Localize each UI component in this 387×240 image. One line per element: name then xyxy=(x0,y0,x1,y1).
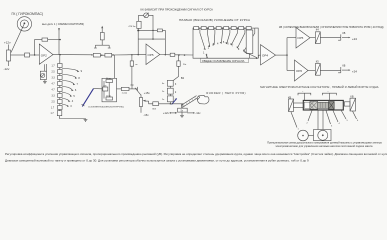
actuator coil right (hatched) xyxy=(329,102,335,110)
attenuator row nodes xyxy=(199,28,245,29)
svg-text:+24: +24 xyxy=(352,37,357,41)
B2 contact numbers xyxy=(175,83,177,101)
wire split vertical xyxy=(286,38,288,71)
ground ladder xyxy=(84,119,88,122)
node RC input xyxy=(103,88,104,89)
wire inner feedback tick xyxy=(152,30,154,39)
svg-text:электромагнитами для управлен: электромагнитами для управления шаговым … xyxy=(276,144,373,148)
svg-text:-15v: -15v xyxy=(143,113,149,117)
ladder tap wires to selector contacts xyxy=(62,69,78,106)
node +12v xyxy=(170,112,171,113)
svg-text:ОР5: ОР5 xyxy=(148,53,154,57)
rudder blade xyxy=(197,95,209,104)
svg-text:ОР6: ОР6 xyxy=(296,69,302,73)
resistor R11 tall at OP4 input xyxy=(246,30,253,54)
actuator white left chamber xyxy=(304,102,310,108)
svg-text:2к: 2к xyxy=(162,91,164,93)
counter rudder RC network box xyxy=(102,78,117,102)
wire rod junction to Ru box xyxy=(182,104,184,108)
resistor V03 xyxy=(153,102,159,106)
wire trim pot right to feedback xyxy=(149,15,154,30)
svg-text:вых.датч 1 ( СХЕМЫ КОНТРОЛЯ): вых.датч 1 ( СХЕМЫ КОНТРОЛЯ) xyxy=(42,22,84,26)
wire feedback to output node xyxy=(48,39,60,41)
arrow +24 lower xyxy=(349,69,351,71)
attenuator wiper tick xyxy=(206,54,208,58)
wire terminal to R6 xyxy=(101,28,103,32)
capacitor bridge line xyxy=(94,45,111,48)
B2 gain resistors xyxy=(167,80,173,104)
wire K4 to limit switch xyxy=(320,37,341,39)
wire OP5 to K4 xyxy=(310,37,315,39)
svg-text:+24: +24 xyxy=(352,70,357,74)
wire pot to -12v xyxy=(8,61,10,66)
wire to OP5 comparator xyxy=(287,37,296,39)
op-amp OP5 summing xyxy=(146,44,160,65)
resistor R3 feedback OP2 xyxy=(42,38,48,41)
node OP2 input xyxy=(34,54,35,55)
outer feedback line OP5 xyxy=(138,29,157,31)
potentiometer R1 (heading sensor) xyxy=(7,50,11,61)
label B2 feed node xyxy=(178,54,179,55)
attenuator position numbers xyxy=(203,41,247,54)
wire pot wiper to R2 xyxy=(11,54,25,56)
svg-text:1 ком: 1 ком xyxy=(122,92,128,94)
wire pot to V03 xyxy=(149,101,153,104)
svg-text:COUNTER RUDDER (КОНТРРУЛЬ): COUNTER RUDDER (КОНТРРУЛЬ) xyxy=(88,107,124,109)
wire R10 to OP4 bus xyxy=(175,55,259,58)
wire OP4 output to split xyxy=(276,54,288,56)
node under R8 xyxy=(137,30,139,31)
B2 feed wire xyxy=(173,55,178,81)
wire ladder feed xyxy=(59,55,61,64)
wire bus into OP4 xyxy=(258,55,260,58)
selector position numbers xyxy=(70,70,82,108)
mechanical rod to rudder xyxy=(181,96,198,108)
shaft link xyxy=(308,134,313,136)
node split xyxy=(286,54,287,55)
arrow +24 upper xyxy=(349,37,351,39)
op-amp OP4 xyxy=(261,45,276,65)
op-amp OP2 xyxy=(39,44,53,64)
wire wiper to RC box xyxy=(94,88,103,90)
node bus to R12 branch xyxy=(131,54,132,55)
rudder feedback pot B2 xyxy=(139,95,142,113)
Ru box power xyxy=(178,108,188,112)
svg-text:МАГНИТНЫЕ ЭЛЕКТРОМАГНИТНЫЕ КОН: МАГНИТНЫЕ ЭЛЕКТРОМАГНИТНЫЕ КОНТАКТОРЫ , … xyxy=(260,85,379,89)
svg-text:Диапазон смещенный волновой п: Диапазон смещенный волновой по такету и … xyxy=(5,159,309,163)
inner feedback line OP5 xyxy=(138,38,165,40)
node inner feedback xyxy=(152,38,153,39)
svg-text:ГК ( ГИРОКОМПАС): ГК ( ГИРОКОМПАС) xyxy=(12,12,44,16)
svg-text:RUDDER ( ПЕРО РУЛЯ): RUDDER ( ПЕРО РУЛЯ) xyxy=(206,91,246,95)
wire R6 to cap line xyxy=(101,40,103,45)
plunger right xyxy=(344,102,350,106)
attenuator contact arrows xyxy=(204,42,245,52)
wire R9 to output leg xyxy=(162,30,165,54)
capacitor C top in box xyxy=(106,80,113,83)
pump motor left xyxy=(298,130,309,141)
node P08 join xyxy=(138,54,139,55)
svg-text:4к: 4к xyxy=(162,83,164,85)
svg-text:КВ: КВ xyxy=(342,65,345,68)
gyrocompass G1 xyxy=(17,17,31,31)
wire OP6 to K5 xyxy=(308,70,315,72)
ground Ru box xyxy=(180,112,184,117)
mechanical link gyro to pot R1 xyxy=(11,24,24,53)
wire V03 to Ru box xyxy=(159,103,184,105)
attenuator resistor row xyxy=(194,27,255,30)
svg-text:ОР2: ОР2 xyxy=(41,53,47,57)
arrow test point xyxy=(58,28,60,31)
wire ladder bottom to ground xyxy=(60,116,86,119)
wire R7 to key xyxy=(129,88,137,90)
node feedback left xyxy=(138,30,139,31)
resistor R10 output OP5 xyxy=(170,53,175,56)
wire to OP6 comparator xyxy=(287,70,295,72)
wire trim pot left to R8 xyxy=(139,15,144,21)
resistor R2 xyxy=(25,53,30,57)
pot wiper arrow xyxy=(135,88,149,102)
internal wires RC box xyxy=(104,81,109,99)
svg-text:КК-ЗАВИСИТ ПРИ ПРОХОЖДЕНИИ СИГ: КК-ЗАВИСИТ ПРИ ПРОХОЖДЕНИИ СИГНАЛ ОТ КУР… xyxy=(141,7,214,11)
wire OP5 output xyxy=(160,54,170,56)
svg-text:ОР5: ОР5 xyxy=(297,36,303,40)
limit switch box mech right xyxy=(350,98,356,111)
coil lead right xyxy=(328,93,330,100)
node OP2 output xyxy=(59,54,60,55)
plunger left xyxy=(294,103,304,107)
svg-text:+12v: +12v xyxy=(163,111,170,115)
wire OP2 feedback left leg xyxy=(35,40,42,55)
resistor R9 outer feedback xyxy=(157,29,162,32)
svg-text:1 М: 1 М xyxy=(103,86,107,88)
node between R4 R5 xyxy=(101,55,102,56)
capacitor C bottom in box xyxy=(106,97,113,100)
wire R8 to main line xyxy=(137,28,139,54)
wire R12 to key switch xyxy=(131,66,133,85)
attenuator feed wire left xyxy=(192,28,195,55)
wiper hub tick xyxy=(82,104,85,106)
wire +12v arrow xyxy=(170,112,175,114)
svg-text:ОР4: ОР4 xyxy=(262,54,268,58)
resistor R8 470 xyxy=(137,21,141,28)
wire right fan leader xyxy=(244,52,257,58)
callout leaders actuator xyxy=(291,110,357,128)
arrow +12v into Ru xyxy=(175,112,177,114)
selector contact arrows xyxy=(67,70,79,107)
wire K5 to limit switch xyxy=(320,69,341,71)
coil bracket left xyxy=(298,93,311,95)
limit switch box mech left xyxy=(289,99,294,112)
svg-text:-12v: -12v xyxy=(195,111,201,115)
wire -12v xyxy=(187,112,193,114)
svg-text:КВ ( КОНЕЧНЫЕ ВЫКЛЮЧАТЕЛИ ) ОГ: КВ ( КОНЕЧНЫЕ ВЫКЛЮЧАТЕЛИ ) ОГРАНИЧЕНИЯ … xyxy=(279,25,384,29)
svg-text:ОБЩЕЕ ОСЛАБЛЕНИЕ СИГНАЛА: ОБЩЕЕ ОСЛАБЛЕНИЕ СИГНАЛА xyxy=(202,59,245,63)
svg-text:КВ: КВ xyxy=(342,32,345,35)
node feedback join xyxy=(59,39,60,40)
node -12v xyxy=(193,112,194,113)
resistor R13 on B2 feed xyxy=(177,61,180,66)
ladder value labels xyxy=(51,66,56,115)
attenuator tap wires xyxy=(200,28,255,51)
svg-text:Регулировка коэффициента усиле: Регулировка коэффициента усиления управл… xyxy=(5,152,387,156)
svg-text:10 мк: 10 мк xyxy=(106,78,111,80)
wire bus to R12 xyxy=(131,55,133,61)
svg-text:ПЛАВНО (ВЫСКАКИВ) УКЛОНЕНИЕ ОТ: ПЛАВНО (ВЫСКАКИВ) УКЛОНЕНИЕ ОТ КУРСА xyxy=(179,18,250,22)
key switch feedback xyxy=(130,85,137,91)
coil lead left xyxy=(303,93,305,100)
node B2 chain join xyxy=(170,103,171,104)
svg-text:470 3w: 470 3w xyxy=(128,26,135,28)
op-amp OP5 comparator xyxy=(296,28,310,49)
wire main line to RC box xyxy=(114,55,116,78)
op-amp OP6 comparator xyxy=(295,60,309,81)
resistor R4 on main line xyxy=(93,53,100,57)
pump box right xyxy=(314,130,332,141)
relay K4 xyxy=(315,32,320,44)
callout numbers xyxy=(298,120,360,131)
limit switch KB upper xyxy=(338,34,349,40)
actuator body xyxy=(303,100,343,110)
svg-text:1к: 1к xyxy=(162,99,164,101)
wiper counter-rudder selector (blue) xyxy=(82,89,93,107)
ground trim pot xyxy=(43,80,47,84)
svg-text:10 мк: 10 мк xyxy=(106,96,111,98)
actuator core middle xyxy=(318,102,329,108)
wire row end to R11 xyxy=(255,28,258,58)
resistor R5 on main line xyxy=(105,53,112,57)
resistor R6 vertical xyxy=(100,33,104,40)
svg-text:20к: 20к xyxy=(183,64,186,66)
box obschee oslablenie xyxy=(201,58,249,62)
wire down to Ru box xyxy=(181,104,183,109)
svg-text:+15v: +15v xyxy=(144,91,151,95)
wire +12v to pot xyxy=(8,45,10,51)
svg-text:В2: В2 xyxy=(181,76,185,80)
node attenuator left xyxy=(184,54,185,55)
resistor R12 vertical xyxy=(130,61,133,66)
wire OP2 output xyxy=(53,54,92,56)
trim pot OP5 (circle with arrow) xyxy=(144,13,149,18)
wire R11 bottom to bus xyxy=(249,54,251,59)
wire RC box to R7 xyxy=(117,88,122,90)
resistor mid in box xyxy=(103,87,108,91)
wire test point 1 xyxy=(58,29,60,55)
node R5 out xyxy=(112,54,113,55)
piston rods down xyxy=(318,110,323,130)
node main line left xyxy=(91,54,92,55)
wire R2 to OP2 xyxy=(30,54,40,56)
svg-text:-12v: -12v xyxy=(4,67,10,71)
resistor R7 1kom xyxy=(121,87,129,90)
node OP5 output xyxy=(165,54,166,55)
B2 labels left xyxy=(162,83,164,101)
wire R5 to OP5 input xyxy=(112,54,146,56)
relay K5 xyxy=(315,64,320,76)
resistor ladder (counter rudder gain) xyxy=(57,64,62,116)
actuator coil left (hatched) xyxy=(310,102,318,110)
node outer feedback xyxy=(152,30,153,31)
B2 wiper blade (blue) xyxy=(172,98,177,104)
node OP4 input xyxy=(256,58,257,59)
terminal arrow top of C network xyxy=(101,26,103,29)
trim pot under OP2 xyxy=(40,64,46,80)
svg-text:+12v: +12v xyxy=(4,41,11,45)
coil bracket right xyxy=(322,93,336,95)
limit switch KB lower xyxy=(338,67,349,73)
wire between R4 R5 xyxy=(100,54,105,56)
